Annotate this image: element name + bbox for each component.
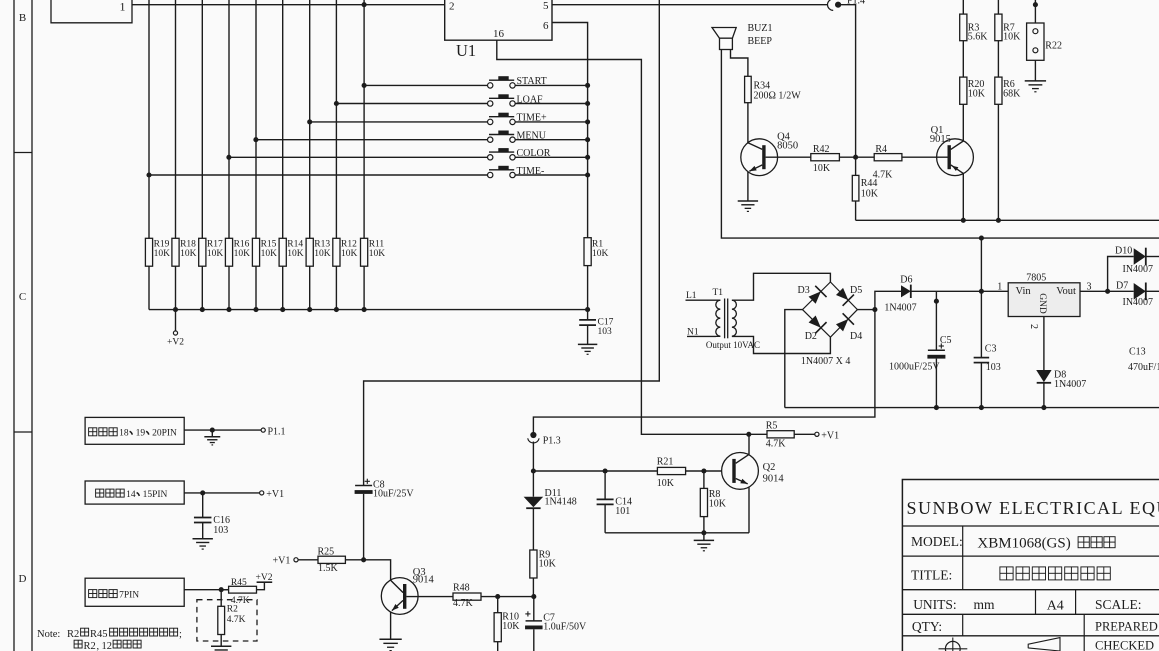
wire: bus line R15 xyxy=(255,0,257,238)
wire: P1.3 to D11 xyxy=(532,442,534,497)
wire: Q2 emitter rail xyxy=(605,532,749,534)
trimmer R22 xyxy=(1034,0,1036,23)
svg-text:7805: 7805 xyxy=(1026,273,1046,284)
resistor R8 xyxy=(703,471,705,488)
wire: Q3 collector to R48 xyxy=(406,596,453,598)
node R5/Q2 collector xyxy=(746,432,751,437)
svg-text:D: D xyxy=(19,573,27,585)
resistor R11 xyxy=(361,238,368,266)
svg-text:103: 103 xyxy=(598,327,613,337)
wire: box to +V1 xyxy=(184,492,259,494)
terminal P1.1 xyxy=(261,428,265,432)
transistor Q2 xyxy=(722,453,759,490)
wire: D6 to 7805 Vin xyxy=(911,290,1008,292)
wire: R25 to Q3 base xyxy=(345,560,390,580)
svg-text:14: 14 xyxy=(126,490,136,500)
svg-text:10K: 10K xyxy=(180,249,197,259)
node: START column joins top wire xyxy=(362,2,367,7)
wire: D11 to R9 xyxy=(532,508,534,550)
diode D11 xyxy=(524,497,544,508)
svg-text:BUZ1: BUZ1 xyxy=(748,23,773,34)
svg-text:R42: R42 xyxy=(813,144,830,155)
wire: P1.4 to R42/R4 node xyxy=(838,5,856,158)
svg-text:10K: 10K xyxy=(1003,32,1021,43)
svg-text:4.7K: 4.7K xyxy=(766,439,787,450)
wire: Q2 emitter down xyxy=(748,434,750,454)
svg-text:SUNBOW ELECTRICAL EQUIPMENT: SUNBOW ELECTRICAL EQUIPMENT xyxy=(907,498,1159,518)
diode D10 xyxy=(1134,248,1146,265)
svg-text:R48: R48 xyxy=(453,582,470,593)
wire: R6 to rail xyxy=(997,104,999,220)
wire: bus line R19 xyxy=(148,0,150,238)
ground at P1.1 stub xyxy=(211,430,213,437)
svg-text:T1: T1 xyxy=(713,288,724,298)
wire: R3 to R20 xyxy=(962,41,964,77)
connector box MCU 7 PIN xyxy=(85,578,184,606)
svg-text:R2: R2 xyxy=(84,641,96,651)
ground at Q2 rail xyxy=(703,533,705,541)
wire: R9 to C7 node xyxy=(532,578,534,597)
svg-text:9015: 9015 xyxy=(930,134,951,145)
svg-text:U1: U1 xyxy=(456,41,476,60)
diode D3 xyxy=(809,291,821,303)
svg-text:20PIN: 20PIN xyxy=(152,429,177,439)
capacitor C14 xyxy=(604,471,606,499)
svg-text:B: B xyxy=(19,12,26,24)
svg-text:1.5K: 1.5K xyxy=(318,563,339,574)
svg-text:D3: D3 xyxy=(798,285,810,296)
svg-text:16: 16 xyxy=(493,28,505,40)
wire: R10 bottom xyxy=(497,642,499,651)
voltage regulator U2 7805 xyxy=(1008,283,1080,317)
wire: D8 to ground rail xyxy=(1043,383,1045,408)
svg-text:10K: 10K xyxy=(968,89,986,100)
wire: bus line R13 xyxy=(309,0,311,238)
wire: Q1 emitter to rail xyxy=(962,173,964,220)
diode D6 xyxy=(901,285,911,297)
svg-text:TITLE:: TITLE: xyxy=(911,568,952,583)
ground at C17 xyxy=(578,343,597,345)
wire: box to R45/R2 node xyxy=(184,589,228,591)
svg-text:R21: R21 xyxy=(657,457,674,468)
wire: box 1 to U1 pin 2 xyxy=(132,4,445,6)
resistor R9 xyxy=(530,550,537,578)
svg-text:QTY:: QTY: xyxy=(912,619,942,634)
resistor R10 xyxy=(497,597,499,613)
svg-text:4.7K: 4.7K xyxy=(873,170,894,181)
svg-text:470uF/1: 470uF/1 xyxy=(1128,362,1159,373)
resistor R16 xyxy=(225,238,232,266)
svg-text:1: 1 xyxy=(120,0,126,14)
svg-text:15PIN: 15PIN xyxy=(143,490,168,500)
resistor R44 xyxy=(855,157,857,175)
svg-text:TIME+: TIME+ xyxy=(517,113,547,124)
wire: bus line R12 xyxy=(335,0,337,238)
wire: bus line R14 xyxy=(282,0,284,238)
svg-text:10K: 10K xyxy=(154,249,171,259)
svg-text:10K: 10K xyxy=(539,559,557,570)
svg-text:BEEP: BEEP xyxy=(748,36,773,47)
svg-text:COLOR: COLOR xyxy=(517,148,551,159)
svg-text:SCALE:: SCALE: xyxy=(1095,597,1142,612)
svg-text:CHECKED: CHECKED xyxy=(1095,638,1154,651)
wire: BUZ1 left lead to +10V rail xyxy=(721,50,1159,239)
wire: R21 to Q2 base xyxy=(686,470,722,472)
transistor Q4 xyxy=(741,139,778,176)
wire: U1 pin 16 to R5 node xyxy=(497,40,749,434)
svg-text:1000uF/25V: 1000uF/25V xyxy=(889,361,940,372)
resistor R13 xyxy=(306,238,313,266)
svg-text:8050: 8050 xyxy=(777,140,798,151)
svg-text:TIME-: TIME- xyxy=(517,166,545,177)
svg-text:10K: 10K xyxy=(709,499,727,510)
svg-text:10K: 10K xyxy=(287,249,304,259)
svg-text:LOAF: LOAF xyxy=(517,94,544,105)
rail: buzzer stage common xyxy=(856,219,1159,221)
wire: box to P1.1 xyxy=(184,429,261,431)
svg-text:101: 101 xyxy=(615,506,630,517)
capacitor C3 xyxy=(980,238,982,358)
ground rail of power section xyxy=(785,407,1159,409)
wire: R15 to V2 bus xyxy=(255,266,257,309)
svg-text:Q2: Q2 xyxy=(763,462,776,473)
svg-text:7PIN: 7PIN xyxy=(119,590,139,600)
wire: R11 to V2 bus xyxy=(363,266,365,309)
wire: bridge minus to ground rail xyxy=(785,310,803,408)
wire: R34 to Q4 collector xyxy=(747,103,749,143)
diode D7 xyxy=(1108,290,1134,292)
bridge rectifier diamond xyxy=(803,282,858,337)
wire: Q3 emitter to ground xyxy=(390,612,392,640)
switch COLOR xyxy=(229,156,488,158)
wire: bridge plus node xyxy=(857,309,875,311)
wire: secondary top to bridge xyxy=(732,273,831,300)
svg-text:1N4007: 1N4007 xyxy=(884,302,916,313)
transistor Q1 xyxy=(937,139,974,176)
svg-text:,: , xyxy=(97,641,100,651)
svg-text:10uF/25V: 10uF/25V xyxy=(373,489,414,500)
wire: C7 bottom xyxy=(533,629,535,651)
svg-text:Vout: Vout xyxy=(1056,286,1076,297)
wire: secondary bottom to bridge xyxy=(732,336,831,353)
svg-text:IN4007: IN4007 xyxy=(1123,264,1154,275)
svg-text:12: 12 xyxy=(102,641,113,651)
svg-text:D4: D4 xyxy=(850,331,862,342)
svg-text:+V2: +V2 xyxy=(167,338,184,348)
resistor R15 xyxy=(252,238,259,266)
resistor R20 xyxy=(960,77,967,104)
switch LOAF xyxy=(336,103,487,105)
wire: Vout node to D10 xyxy=(1108,257,1134,292)
wire: +V1 to R25 xyxy=(298,559,318,561)
svg-text:mm: mm xyxy=(974,597,996,612)
svg-text:200Ω 1/2W: 200Ω 1/2W xyxy=(754,91,802,102)
terminal +V1 at R5 xyxy=(815,432,819,436)
svg-text:10K: 10K xyxy=(341,249,358,259)
svg-text:+V2: +V2 xyxy=(256,573,273,583)
svg-text:P1.1: P1.1 xyxy=(268,426,286,437)
wire: 7805 GND to D8 xyxy=(1043,317,1045,371)
svg-text:R5: R5 xyxy=(766,420,778,431)
svg-text:GND: GND xyxy=(1037,293,1047,314)
svg-text:R45: R45 xyxy=(90,629,108,640)
svg-text:9014: 9014 xyxy=(413,574,435,585)
wire: R14 to V2 bus xyxy=(282,266,284,309)
svg-text:10K: 10K xyxy=(261,249,278,259)
svg-text:10K: 10K xyxy=(861,188,879,199)
capacitor C16 xyxy=(202,493,204,518)
switch MENU xyxy=(256,139,488,141)
svg-text:C3: C3 xyxy=(985,344,997,355)
svg-text:+V1: +V1 xyxy=(273,556,291,567)
terminal +V1 at box xyxy=(260,491,264,495)
transistor Q3 xyxy=(381,578,418,615)
wire: R19 to V2 bus xyxy=(148,266,150,309)
IC U1 xyxy=(445,0,552,40)
diode D5 xyxy=(836,288,848,300)
svg-text:68K: 68K xyxy=(1003,89,1021,100)
wire: R16 to V2 bus xyxy=(228,266,230,309)
svg-text:R2: R2 xyxy=(227,605,238,615)
svg-text:D6: D6 xyxy=(900,274,912,285)
svg-text:R4: R4 xyxy=(875,144,887,155)
resistor R25 xyxy=(318,556,345,563)
connector box MCU 14/15 PIN xyxy=(85,481,184,504)
capacitor C8 xyxy=(365,480,370,482)
svg-text:D7: D7 xyxy=(1116,280,1128,291)
switch START xyxy=(364,84,488,86)
switch TIME- xyxy=(149,174,488,176)
svg-text:10K: 10K xyxy=(369,249,386,259)
ground at Q4 xyxy=(738,200,758,202)
svg-text:R22: R22 xyxy=(1045,40,1062,51)
wire: R2 to ground xyxy=(220,635,222,647)
svg-text:10K: 10K xyxy=(592,249,609,259)
capacitor C7 xyxy=(533,597,535,621)
wire: Q4 base to R42 xyxy=(766,156,811,158)
svg-text:R45: R45 xyxy=(231,578,247,588)
svg-text:10K: 10K xyxy=(657,478,675,489)
diode D8 xyxy=(1036,370,1051,382)
svg-text:Note:: Note: xyxy=(37,629,60,640)
ground at Q3 xyxy=(379,638,401,640)
resistor R5 xyxy=(749,433,767,435)
wire: R12 to V2 bus xyxy=(335,266,337,309)
resistor R14 xyxy=(279,238,286,266)
resistor R48 xyxy=(453,593,481,600)
wire: C8 to R25 node xyxy=(363,494,365,560)
wire: P1.3 node to R21 row xyxy=(533,470,605,472)
svg-text:C: C xyxy=(19,291,26,303)
svg-text:1N4007 X 4: 1N4007 X 4 xyxy=(801,356,850,367)
wire: R45 to +V2 xyxy=(257,582,265,590)
svg-text:103: 103 xyxy=(986,362,1001,373)
capacitor C17 xyxy=(579,319,596,321)
projection symbol xyxy=(945,641,960,651)
wire: C5 to ground rail xyxy=(935,359,937,408)
svg-text:1N4007: 1N4007 xyxy=(1054,379,1086,390)
svg-text:5.6K: 5.6K xyxy=(968,32,989,43)
resistor R21 xyxy=(657,467,685,474)
svg-text:2: 2 xyxy=(1028,324,1039,329)
dashed option box around R2 xyxy=(197,600,257,641)
terminal +V2 bar xyxy=(257,581,273,583)
svg-text:5: 5 xyxy=(543,0,549,12)
svg-text:10K: 10K xyxy=(502,621,520,632)
ground at R22 xyxy=(1025,80,1046,82)
resistor R18 xyxy=(172,238,179,266)
diode D4 xyxy=(836,319,848,331)
wire: R7 to R6 xyxy=(997,41,999,77)
svg-text:Output 10VAC: Output 10VAC xyxy=(706,340,760,350)
svg-text:C5: C5 xyxy=(940,335,952,346)
svg-text:IN4007: IN4007 xyxy=(1123,297,1154,308)
wire: R44 to rail xyxy=(855,201,857,220)
wire: bus line R18 xyxy=(175,0,177,238)
svg-text:Vin: Vin xyxy=(1016,286,1032,297)
terminal P1.4 xyxy=(828,0,834,10)
terminal +V2 xyxy=(175,310,177,331)
resistor R7 xyxy=(997,0,999,14)
buzzer BUZ1 xyxy=(712,28,736,39)
wire: bus line R11 xyxy=(363,0,365,238)
title block xyxy=(902,480,1159,651)
wire: R48 to R10/C7 node xyxy=(481,596,534,598)
svg-text:;: ; xyxy=(179,629,182,640)
svg-text:START: START xyxy=(517,76,547,87)
ground at C16 xyxy=(193,538,213,540)
svg-text:PREPARED: PREPARED xyxy=(1095,620,1158,634)
svg-text:XBM1068(GS): XBM1068(GS) xyxy=(977,536,1070,552)
resistor R12 xyxy=(333,238,340,266)
svg-text:4.7K: 4.7K xyxy=(453,598,474,609)
svg-text:10K: 10K xyxy=(207,249,224,259)
svg-text:10K: 10K xyxy=(234,249,251,259)
wire: plus node up to D6 xyxy=(875,291,901,309)
svg-text:D5: D5 xyxy=(850,285,862,296)
svg-text:1.0uF/50V: 1.0uF/50V xyxy=(543,622,587,633)
svg-text:1N4148: 1N4148 xyxy=(545,497,577,508)
wire: 7805 Vout node xyxy=(1080,290,1108,292)
svg-text:MENU: MENU xyxy=(517,131,547,142)
svg-text:R2: R2 xyxy=(67,629,79,640)
resistor R42 xyxy=(811,154,840,161)
wire: U1 pin 5 to P1.4 xyxy=(552,4,827,6)
svg-text:103: 103 xyxy=(213,525,228,536)
svg-text:19: 19 xyxy=(136,429,146,439)
svg-text:P1.3: P1.3 xyxy=(543,436,561,447)
wire: R21 row xyxy=(605,470,657,472)
wire: +V2 bus xyxy=(149,309,588,311)
wire: R42 to node xyxy=(839,156,855,158)
terminal P1.3 xyxy=(530,432,536,438)
wire: Q1 collector to R20 xyxy=(962,104,964,141)
resistor R34 xyxy=(745,76,752,102)
wire: R22 to ground xyxy=(1034,60,1036,81)
wire: BUZ1 right lead to R34 xyxy=(731,50,748,77)
wire: Q4 emitter to ground xyxy=(747,172,749,201)
wire: R13 to V2 bus xyxy=(309,266,311,309)
svg-text:C13: C13 xyxy=(1129,347,1146,358)
svg-text:4.7K: 4.7K xyxy=(227,615,246,625)
resistor R19 xyxy=(145,238,152,266)
svg-text:UNITS:: UNITS: xyxy=(913,597,957,612)
connector box MCU 18/19/20 PIN xyxy=(85,417,184,444)
wire: R8 to ground rail xyxy=(703,517,705,533)
svg-text:10K: 10K xyxy=(314,249,331,259)
connector box 1 xyxy=(51,0,132,23)
svg-text:R25: R25 xyxy=(318,547,335,558)
ground at R2 xyxy=(211,645,231,647)
wire: R17 to V2 bus xyxy=(201,266,203,309)
resistor R1 xyxy=(584,238,591,266)
resistor R3 xyxy=(962,0,964,14)
wire: R18 to V2 bus xyxy=(175,266,177,309)
wire: R5 to +V1 xyxy=(794,433,815,435)
wire: top net to C8 xyxy=(364,0,660,485)
resistor R2 xyxy=(220,590,222,607)
svg-text:D10: D10 xyxy=(1115,245,1132,256)
svg-text:D2: D2 xyxy=(805,331,817,342)
svg-text:A4: A4 xyxy=(1047,599,1064,614)
svg-text:10K: 10K xyxy=(813,163,831,174)
svg-text:MODEL:: MODEL: xyxy=(911,534,963,549)
wire: bus line R17 xyxy=(201,0,203,238)
wire: U1 pin 6 to key column xyxy=(552,23,588,238)
svg-text:1: 1 xyxy=(997,281,1002,292)
svg-text:9014: 9014 xyxy=(763,474,785,485)
wire: bridge + output to P1.3 xyxy=(533,310,875,435)
diode D2 xyxy=(809,315,821,327)
resistor R45 xyxy=(221,589,228,591)
wire: R1 to C17 xyxy=(587,266,589,320)
svg-text:+V1: +V1 xyxy=(821,430,839,441)
switch TIME+ xyxy=(310,121,488,123)
resistor R6 xyxy=(995,77,1002,104)
svg-text:+V1: +V1 xyxy=(266,489,284,500)
wire: R4 to Q1 base xyxy=(902,156,948,158)
resistor R17 xyxy=(199,238,206,266)
resistor R4 xyxy=(856,156,875,158)
svg-text:18: 18 xyxy=(119,429,129,439)
svg-text:2: 2 xyxy=(449,1,455,13)
svg-text:6: 6 xyxy=(543,20,549,32)
wire: bus line R16 xyxy=(228,0,230,238)
capacitor C5 xyxy=(935,291,937,349)
